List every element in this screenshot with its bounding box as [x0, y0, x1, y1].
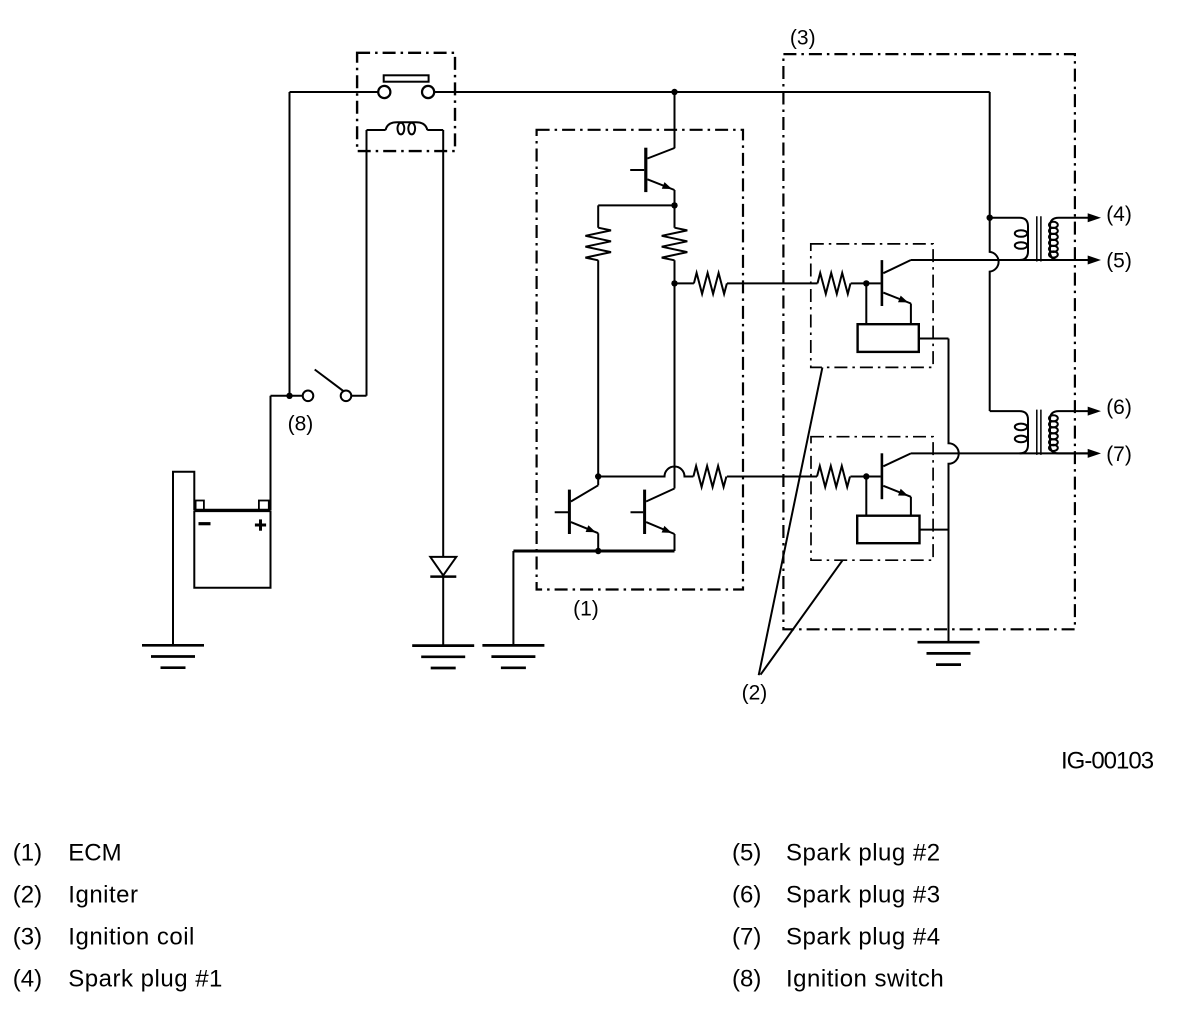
svg-text:Ignition coil: Ignition coil — [68, 924, 195, 951]
svg-text:(7): (7) — [732, 924, 761, 951]
svg-text:(6): (6) — [732, 882, 761, 909]
svg-text:Ignition switch: Ignition switch — [786, 966, 944, 993]
svg-text:IG-00103: IG-00103 — [1061, 748, 1154, 775]
svg-text:(1): (1) — [573, 598, 599, 621]
svg-text:Spark plug #1: Spark plug #1 — [68, 966, 223, 993]
svg-text:(5): (5) — [732, 840, 761, 867]
svg-text:(6): (6) — [1106, 396, 1132, 419]
svg-text:(8): (8) — [288, 413, 314, 436]
svg-text:(8): (8) — [732, 966, 761, 993]
svg-text:(4): (4) — [1106, 203, 1132, 226]
svg-text:Spark plug #2: Spark plug #2 — [786, 840, 941, 867]
svg-text:(7): (7) — [1106, 443, 1132, 466]
svg-text:Spark plug #4: Spark plug #4 — [786, 924, 941, 951]
svg-text:(2): (2) — [13, 882, 42, 909]
svg-text:(3): (3) — [13, 924, 42, 951]
svg-text:(2): (2) — [742, 682, 768, 705]
svg-text:ECM: ECM — [68, 840, 121, 867]
svg-text:(5): (5) — [1106, 250, 1132, 273]
svg-text:(3): (3) — [790, 26, 816, 49]
svg-text:(4): (4) — [13, 966, 42, 993]
svg-text:(1): (1) — [13, 840, 42, 867]
svg-text:Spark plug #3: Spark plug #3 — [786, 882, 941, 909]
svg-text:Igniter: Igniter — [68, 882, 138, 909]
